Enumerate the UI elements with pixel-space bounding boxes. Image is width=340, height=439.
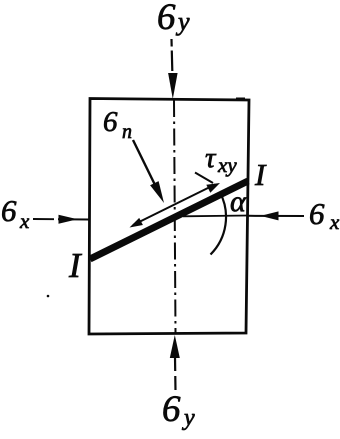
top sigma-y arrow shaft: [170, 39, 173, 71]
svg-text:6: 6: [103, 106, 118, 138]
svg-text:x: x: [329, 210, 340, 234]
tau-xy arrowhead on plane arrow: [206, 183, 220, 193]
svg-text:6: 6: [157, 0, 176, 38]
stress element rectangle: [89, 99, 249, 335]
scan bump on top edge: [236, 98, 245, 101]
section line I-I (thick): [90, 181, 248, 259]
left sigma-x arrowhead: [59, 215, 78, 224]
bottom sigma-y arrowhead: [170, 335, 180, 358]
bottom sigma-y arrow shaft: [174, 357, 177, 391]
svg-text:xy: xy: [217, 153, 237, 177]
vertical dash-dot axis line: [174, 100, 176, 333]
horizontal axis line (right half): [174, 215, 179, 217]
svg-text:6: 6: [162, 389, 181, 430]
svg-text:n: n: [122, 121, 132, 143]
svg-text:6: 6: [1, 193, 17, 228]
tau-xy leader line: [195, 173, 213, 184]
stray ink dot: [47, 295, 50, 298]
sigma-n arrowhead: [150, 181, 164, 203]
angle alpha arc: [211, 192, 227, 254]
sigma-n arrow shaft: [133, 140, 157, 189]
down-left arrowhead of plane arrow: [130, 218, 143, 228]
thin arrow along section plane: [133, 185, 215, 226]
right sigma-x arrow shaft: [249, 215, 305, 217]
right sigma-x arrowhead: [261, 211, 279, 220]
svg-text:y: y: [175, 7, 190, 36]
svg-text:x: x: [19, 209, 30, 233]
top sigma-y arrowhead: [168, 73, 178, 99]
svg-text:y: y: [182, 405, 195, 431]
svg-text:6: 6: [309, 196, 325, 231]
svg-text:I: I: [254, 157, 267, 192]
left sigma-x arrow shaft: [33, 218, 89, 221]
svg-text:I: I: [68, 246, 83, 285]
svg-text:τ: τ: [205, 142, 217, 174]
svg-text:α: α: [230, 185, 247, 218]
